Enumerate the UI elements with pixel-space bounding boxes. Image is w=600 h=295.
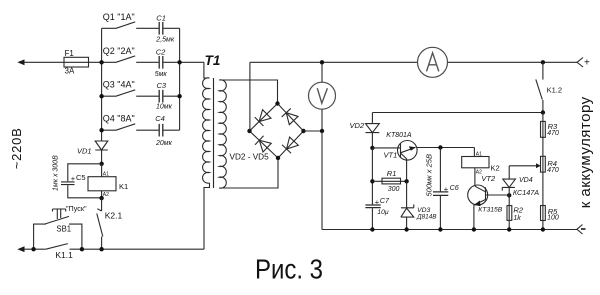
label C1 — [156, 14, 166, 23]
svg-text:500мк x 25В: 500мк x 25В — [425, 154, 434, 196]
capacitor C7 — [365, 205, 380, 230]
label + terminal — [584, 58, 590, 69]
diode bridge bottom-right — [282, 137, 298, 153]
label K1.2 — [547, 85, 562, 94]
label 2,5мк — [155, 37, 175, 44]
label R2 — [513, 206, 523, 215]
resistor R3 — [541, 113, 546, 157]
resistor R1 — [372, 178, 406, 184]
svg-text:470: 470 — [547, 130, 559, 137]
label 300 — [388, 186, 400, 193]
node: SB1 right junction — [80, 247, 84, 251]
diode VD1 — [95, 141, 108, 164]
node: C5 top junction — [99, 162, 103, 166]
ammeter A — [418, 47, 448, 77]
resistor R5 — [541, 206, 546, 230]
wire: bridge left to top DC line — [249, 62, 251, 131]
terminal minus output — [577, 225, 583, 235]
node: rail C7 — [370, 227, 374, 231]
node: voltmeter bottom — [320, 129, 324, 133]
svg-text:C6: C6 — [450, 183, 459, 192]
label 5мк — [155, 71, 168, 78]
wire: base node down to R1 left — [371, 148, 373, 205]
svg-text:Q3 "4A": Q3 "4A" — [103, 80, 135, 90]
wire: R4 wiper line — [509, 163, 541, 168]
relay coil K2 — [462, 157, 489, 187]
zener diode VD3 — [401, 204, 414, 229]
voltmeter V — [309, 62, 336, 131]
label R4 — [547, 159, 557, 168]
svg-text:K2.1: K2.1 — [105, 211, 123, 221]
svg-text:C5: C5 — [76, 173, 86, 182]
svg-text:VT1: VT1 — [384, 151, 398, 160]
wire: bottom AC line with left arrow — [17, 246, 204, 252]
svg-text:Q1 "1A": Q1 "1A" — [103, 12, 135, 22]
node: left bus row3 junction — [99, 94, 103, 98]
label VD1 — [77, 147, 92, 156]
node: bridge top — [275, 101, 279, 105]
node: R1 left junction — [370, 179, 374, 183]
svg-text:470: 470 — [547, 167, 559, 174]
label 10μ — [377, 209, 389, 216]
label ~220В — [9, 127, 24, 169]
label к аккумулятору — [577, 96, 594, 208]
terminal plus output — [577, 58, 583, 68]
wire: bottom minus rail — [322, 229, 577, 231]
node: VT1 base node — [370, 146, 374, 150]
label 20мк — [155, 140, 173, 147]
wire: left bus vertical — [101, 28, 103, 141]
node: top rail right junction — [541, 110, 545, 114]
capacitor C5 — [61, 164, 102, 198]
wire: VT1 base lead — [372, 147, 400, 149]
switch Q1 — [102, 22, 159, 28]
wire: VT1 emitter line to K2 — [417, 148, 475, 157]
wire: secondary top to bridge — [219, 80, 277, 104]
label VD2 — [350, 121, 365, 130]
label VT2 — [481, 174, 496, 183]
svg-text:2,5мк: 2,5мк — [155, 37, 175, 44]
node: bridge left — [247, 129, 251, 133]
svg-text:VD1: VD1 — [77, 147, 92, 156]
label R5 — [548, 207, 558, 216]
svg-text:K2: K2 — [491, 163, 500, 172]
svg-text:C1: C1 — [156, 14, 166, 23]
svg-text:A1: A1 — [103, 172, 109, 178]
node: K1.2 top junction — [541, 60, 545, 64]
caption Рис. 3 — [255, 254, 323, 285]
wire: secondary bottom to bridge — [219, 158, 278, 188]
label VD3 — [417, 207, 430, 214]
svg-text:10мк: 10мк — [156, 104, 173, 111]
svg-text:R2: R2 — [513, 206, 523, 215]
label КТ315В — [478, 206, 502, 213]
transformer T1 secondary winding — [219, 80, 226, 188]
svg-text:+: + — [584, 58, 590, 69]
wire: control top rail — [372, 112, 543, 114]
svg-text:A1: A1 — [476, 151, 482, 157]
label A1 pin K1 — [103, 172, 109, 178]
resistor R2 — [507, 195, 512, 229]
node: left bus row2 junction — [99, 60, 103, 64]
switch K2.1 — [97, 198, 103, 249]
label - terminal — [581, 228, 586, 230]
svg-text:SB1: SB1 — [56, 224, 71, 233]
switch Q4 — [102, 124, 180, 130]
label VD2 - VD5 — [230, 153, 270, 162]
capacitor C3 — [159, 90, 163, 103]
label + C6 — [444, 183, 459, 194]
label K1.1 — [55, 250, 73, 260]
node: rail R2 — [507, 227, 511, 231]
svg-text:K1.2: K1.2 — [547, 85, 562, 94]
svg-text:C4: C4 — [155, 114, 165, 123]
label R1 — [387, 169, 397, 178]
label A — [427, 53, 439, 72]
label F1 — [65, 49, 75, 58]
wire: right bus vertical — [179, 28, 181, 130]
node: VD4 R2 base junction — [507, 193, 511, 197]
label KT801A — [386, 132, 412, 139]
zener diode VD4 — [502, 166, 515, 196]
node: right bus row2 junction — [177, 60, 181, 64]
label A2 pin K1 — [103, 192, 109, 198]
potentiometer R4 — [541, 156, 546, 205]
transistor VT1 — [398, 141, 418, 182]
svg-text:~220В: ~220В — [9, 127, 24, 169]
svg-text:A2: A2 — [103, 192, 109, 198]
svg-text:VD4: VD4 — [519, 177, 533, 184]
node: rail C6 — [438, 227, 442, 231]
wire: minus column from voltmeter node down — [321, 131, 323, 230]
svg-text:C2: C2 — [156, 48, 166, 57]
svg-text:20мк: 20мк — [155, 140, 173, 147]
capacitor C4 — [159, 124, 163, 137]
svg-text:VT2: VT2 — [481, 174, 496, 183]
svg-text:C3: C3 — [157, 81, 167, 90]
svg-text:1мк x 300В: 1мк x 300В — [53, 155, 60, 191]
label 1мк x 300В — [53, 155, 60, 191]
node: SB1 left junction — [31, 247, 35, 251]
svg-text:Д814В: Д814В — [416, 214, 437, 221]
diode VD2-VD5 bridge top-left — [255, 110, 271, 126]
svg-text:+: + — [444, 184, 449, 193]
svg-text:300: 300 — [388, 186, 400, 193]
diode VD2 — [366, 113, 380, 148]
node: rail VD3 — [404, 227, 408, 231]
switch K1.2 — [536, 62, 543, 112]
transformer T1 primary lead bottom — [204, 183, 210, 249]
label 470 R3 — [547, 130, 559, 137]
node: voltmeter top on DC line — [320, 60, 324, 64]
label + C7 — [375, 196, 390, 206]
label 10мк — [156, 104, 173, 111]
svg-text:T1: T1 — [205, 53, 221, 68]
svg-text:+: + — [71, 174, 76, 183]
wire: bridge diamond edges — [250, 104, 304, 159]
capacitor C6 — [433, 148, 448, 230]
fuse F1 — [64, 57, 89, 67]
svg-text:100: 100 — [547, 215, 559, 222]
label VD4 — [519, 177, 533, 184]
svg-text:R1: R1 — [387, 169, 397, 178]
label VT1 — [384, 151, 398, 160]
diode bridge bottom-left — [255, 136, 271, 152]
svg-text:Q4 "8A": Q4 "8A" — [103, 114, 135, 124]
label SB1 — [56, 224, 71, 233]
label T1 — [205, 53, 221, 68]
svg-text:VD2 - VD5: VD2 - VD5 — [230, 153, 270, 162]
label КС147А — [513, 188, 539, 197]
svg-text:10μ: 10μ — [377, 209, 389, 216]
wire: bridge right to voltmeter node — [304, 130, 323, 132]
svg-text:"Пуск": "Пуск" — [66, 204, 87, 213]
switch Q2 — [116, 56, 135, 62]
svg-text:1k: 1k — [513, 215, 521, 222]
transistor VT2 — [468, 185, 488, 230]
transformer T1 primary winding — [203, 78, 210, 183]
pushbutton SB1 — [34, 209, 82, 249]
label Д814В — [416, 214, 437, 221]
transformer T1 core — [213, 78, 215, 188]
label 470 R4 — [547, 167, 559, 174]
label C2 — [156, 48, 166, 57]
switch K1.1 — [46, 244, 68, 250]
svg-text:VD2: VD2 — [350, 121, 365, 130]
node: C6 top junction — [438, 145, 442, 149]
node: right bus row3 junction — [177, 94, 181, 98]
wire: top AC line with left arrow — [17, 59, 204, 65]
switch Q3 — [102, 90, 180, 96]
label A1 pin K2 — [476, 151, 482, 157]
label C3 — [157, 81, 167, 90]
label A2 pin K2 — [476, 170, 482, 176]
svg-text:к аккумулятору: к аккумулятору — [577, 96, 594, 208]
label K2 — [491, 163, 500, 172]
label Q4 "8A" — [103, 114, 135, 124]
wire: VT2 base lead — [486, 194, 510, 196]
svg-text:КС147А: КС147А — [513, 188, 539, 197]
svg-text:K1.1: K1.1 — [55, 250, 73, 260]
svg-text:5мк: 5мк — [155, 71, 168, 78]
svg-text:KT801A: KT801A — [386, 132, 412, 139]
label 500мк x 25В — [425, 154, 434, 196]
label C4 — [155, 114, 165, 123]
label "Пуск" — [66, 204, 87, 213]
node: bridge right — [301, 129, 305, 133]
wire: VT1 collector column — [406, 181, 408, 208]
diode bridge top-right — [282, 108, 298, 124]
label K2.1 — [105, 211, 123, 221]
transformer T1 primary lead top — [204, 62, 210, 78]
label R3 — [548, 122, 558, 131]
label K1 — [119, 182, 128, 191]
label V — [317, 88, 327, 103]
node: bridge bottom — [276, 156, 280, 160]
label 100 — [547, 215, 559, 222]
svg-text:C7: C7 — [380, 196, 390, 205]
node: R1 right junction — [404, 179, 408, 183]
svg-text:Рис. 3: Рис. 3 — [255, 254, 323, 285]
node: K2.1 bottom junction — [99, 247, 103, 251]
svg-text:K1: K1 — [119, 182, 128, 191]
relay coil K1 — [88, 164, 116, 198]
capacitor C1 — [159, 22, 179, 35]
node: K1 bottom junction — [99, 196, 103, 200]
node: rail VT2 emitter — [472, 227, 476, 231]
node: rail R5 — [541, 227, 545, 231]
label + C5 — [71, 173, 86, 183]
svg-text:КТ315В: КТ315В — [478, 206, 502, 213]
label Q3 "4A" — [103, 80, 135, 90]
svg-text:Q2 "2A": Q2 "2A" — [103, 46, 135, 56]
node: left bus row4 junction — [99, 128, 103, 132]
label Q1 "1A" — [103, 12, 135, 22]
svg-text:F1: F1 — [65, 49, 75, 58]
svg-text:3A: 3A — [65, 66, 75, 75]
capacitor C2 — [159, 56, 163, 69]
wire: top DC line — [250, 61, 577, 63]
label 3A — [65, 66, 75, 75]
label Q2 "2A" — [103, 46, 135, 56]
label 1k — [513, 215, 521, 222]
